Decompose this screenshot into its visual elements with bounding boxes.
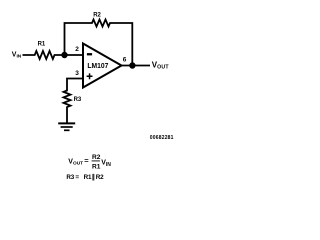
svg-text:3: 3: [75, 70, 79, 77]
svg-text:VIN: VIN: [101, 160, 111, 168]
svg-text:00682281: 00682281: [150, 135, 174, 141]
svg-text:R2: R2: [93, 13, 101, 19]
svg-text:VIN: VIN: [12, 51, 22, 59]
svg-text:R3: R3: [66, 174, 74, 181]
svg-text:R2: R2: [92, 154, 101, 161]
svg-text:2: 2: [75, 46, 79, 53]
svg-text:R1: R1: [38, 41, 46, 47]
svg-text:∥: ∥: [92, 174, 95, 181]
svg-text:=: =: [75, 174, 79, 181]
svg-text:6: 6: [123, 56, 127, 63]
svg-text:LM107: LM107: [87, 63, 108, 70]
svg-text:R2: R2: [96, 174, 104, 181]
svg-text:VOUT: VOUT: [152, 60, 170, 70]
svg-text:R3: R3: [74, 97, 82, 103]
svg-text:R1: R1: [92, 164, 101, 171]
svg-text:VOUT: VOUT: [68, 159, 83, 167]
svg-text:=: =: [84, 156, 89, 165]
